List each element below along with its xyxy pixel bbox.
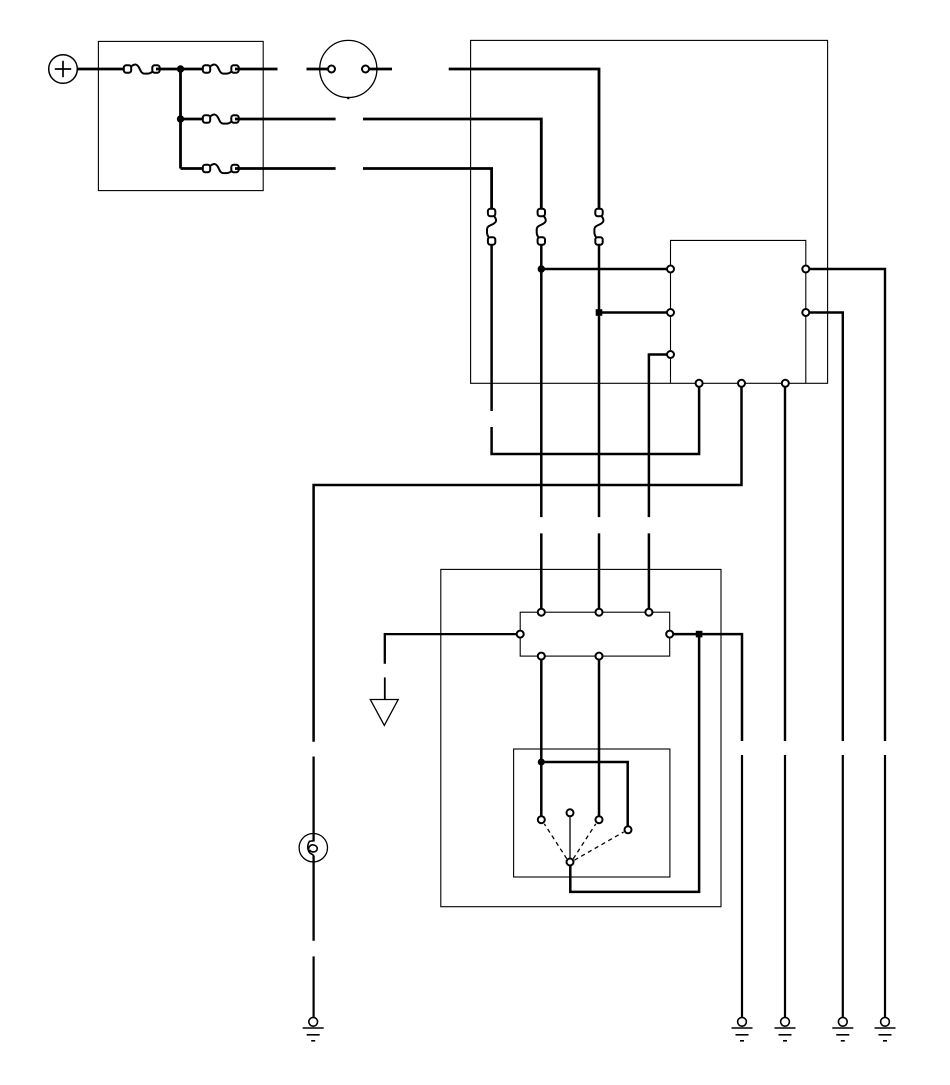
ground G0 (303, 1017, 324, 1040)
wire lead out of connector right (369, 68, 392, 71)
strip pin T2 (596, 609, 603, 616)
wire junction C to relay pin L1 (541, 268, 667, 271)
wire relay pin B3 down (784, 387, 786, 741)
wire row3 into control unit (363, 169, 492, 210)
wire S4 right to break (235, 167, 336, 170)
ground G4 (875, 1017, 896, 1040)
wire junction E to switch pivot (570, 634, 699, 892)
ground G1 (732, 1017, 753, 1040)
relay pin R1 (802, 266, 809, 273)
wire S1 to junction (156, 68, 207, 71)
wire S3 right to break (235, 118, 336, 121)
wire lamp to ground G0 upper (312, 856, 314, 941)
ground G3 (832, 1017, 853, 1040)
wire bus bottom to fuse S4 (181, 167, 207, 170)
strip pin D1 (538, 653, 545, 660)
fuse box (98, 41, 263, 190)
connector pin left (328, 66, 335, 73)
switch box (514, 749, 670, 877)
relay pin B2 (738, 380, 745, 387)
connector strip box (520, 612, 670, 656)
strip pin left (517, 631, 524, 638)
wire G3 lower segment (842, 755, 844, 1017)
node junction D (596, 309, 603, 316)
ground G2 (775, 1017, 796, 1040)
node junction F (538, 759, 545, 766)
wire V3 down to junction (598, 245, 601, 518)
switch dashed position to C1 (544, 824, 567, 859)
switch unit box (441, 569, 721, 906)
wire V1 break lower segment, loop to relay pin B1 (492, 387, 699, 454)
wire V2 down to junction (540, 245, 543, 518)
relay pin B3 (782, 380, 789, 387)
wire lamp feed upper segment (312, 757, 314, 842)
wire junction B to fuse S3 (181, 118, 207, 121)
connector pin right (362, 66, 369, 73)
connector pin bottom tick (347, 97, 349, 99)
node junction B (177, 115, 184, 122)
wire strip right pin to ground G1 upper (673, 634, 742, 741)
strip pin T3 (645, 609, 652, 616)
wire relay pin B2 to long feed (314, 387, 742, 742)
relay pin L2 (667, 309, 674, 316)
wire G2 lower segment (784, 755, 786, 1017)
switch lever to middle contact (569, 817, 571, 858)
wire G0 lower segment (313, 956, 315, 1017)
wire strip pin D1 to switch contact (540, 660, 543, 816)
arrow continuation symbol (370, 700, 398, 726)
wire V3 lower segment to strip pin T2 (598, 533, 601, 608)
lamp L (299, 834, 327, 862)
strip pin right (666, 631, 673, 638)
wire strip left pin to arrow (385, 634, 517, 664)
fuse S4 (203, 164, 239, 173)
switch pivot (567, 859, 574, 866)
switch contact CM (567, 809, 574, 816)
switch dashed position to C2 (573, 824, 596, 859)
wire row1 into control unit (449, 69, 599, 210)
relay pin R2 (802, 309, 809, 316)
fuse V1 (487, 209, 496, 245)
node junction E (696, 631, 703, 638)
wire S2 right to break (235, 68, 278, 71)
wire V2 lower segment to strip pin T1 (540, 533, 543, 608)
wire battery to fuse S1 (77, 68, 124, 71)
wire relay pin L3 down to strip pin T3 (649, 355, 667, 518)
strip pin T1 (538, 609, 545, 616)
wire row2 into control unit (363, 119, 541, 210)
wire relay pin R1 to ground G4 upper (810, 269, 886, 741)
wire L3 lower segment (648, 533, 651, 608)
switch contact C1 (538, 816, 545, 823)
fuse S3 (203, 115, 239, 124)
fuse V3 (594, 209, 603, 245)
wire bus vertical in fuse box (179, 69, 182, 169)
battery positive terminal B+ (49, 55, 78, 84)
wire lead into connector left (307, 68, 329, 71)
relay pin L1 (667, 266, 674, 273)
node junction C (538, 265, 545, 272)
node junction A (177, 65, 184, 72)
wire V1 down with break (490, 245, 493, 412)
fuse V2 (537, 209, 546, 245)
wire junction D to relay pin L2 (599, 311, 667, 314)
relay pin B1 (696, 380, 703, 387)
wire strip pin D2 to switch contact (598, 660, 601, 816)
strip pin D2 (596, 653, 603, 660)
wire G1 lower segment (741, 755, 743, 1017)
wire dash above arrow (384, 677, 386, 699)
fuse S1 (124, 65, 160, 74)
wire relay pin R2 to ground G3 upper (810, 313, 843, 742)
wire junction F to contact CB (541, 762, 627, 826)
switch contact CB (625, 826, 632, 833)
switch contact C2 (596, 816, 603, 823)
wire G4 lower segment (884, 755, 886, 1017)
switch dashed position to CB (574, 832, 623, 860)
relay box (671, 240, 806, 383)
control unit box J (471, 40, 828, 383)
connector plug circle (320, 40, 377, 97)
fuse S2 (203, 65, 239, 74)
relay pin L3 (667, 351, 674, 358)
